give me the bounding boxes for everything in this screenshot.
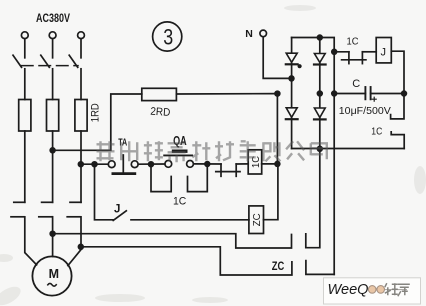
button TA cap bar xyxy=(113,172,135,175)
relay J box xyxy=(376,38,391,63)
terminal L2 xyxy=(49,32,56,39)
watermark 杭州将睿科技有限公司 (pseudo glyphs) xyxy=(97,141,327,162)
coil ZC box xyxy=(249,206,264,234)
wire to 1C coil xyxy=(236,163,248,165)
svg-text:3: 3 xyxy=(163,24,173,49)
wire brake line1 (phase2) xyxy=(53,234,292,248)
wire ZC coil right up to node xyxy=(264,166,278,220)
svg-text:QA: QA xyxy=(173,134,187,148)
wire phase1 to motor xyxy=(25,217,37,265)
switch QS linkage (dashed) xyxy=(22,65,79,67)
contact 1C self-hold left hook xyxy=(151,166,171,192)
fuse 1RD phase2 xyxy=(47,100,59,132)
svg-text:J: J xyxy=(381,46,387,58)
node J branch xyxy=(92,162,97,167)
button TA contact circles xyxy=(108,161,115,168)
svg-text:WeeQ: WeeQ xyxy=(328,281,369,298)
node self-hold right xyxy=(205,162,210,167)
wire brake line2 (phase3) xyxy=(81,247,292,275)
fuse 2RD xyxy=(142,88,177,100)
svg-text:1C: 1C xyxy=(347,36,359,48)
node C branch tap xyxy=(332,91,337,96)
wire 2RD to bridge rail xyxy=(176,93,277,95)
svg-text:10μF/500V: 10μF/500V xyxy=(339,105,391,117)
wire bridge column2 upper xyxy=(319,38,321,149)
capacitor C plates xyxy=(364,87,366,99)
svg-text:2RD: 2RD xyxy=(150,106,171,119)
wire L2 stub xyxy=(52,39,54,58)
svg-text:1C: 1C xyxy=(173,196,186,208)
diode D2 xyxy=(314,54,325,63)
wire J right down xyxy=(391,51,404,93)
switch QS pole 1 blade xyxy=(13,55,22,67)
node on AC rail xyxy=(275,91,280,96)
svg-text:N: N xyxy=(245,28,253,40)
node top rail / column2 xyxy=(317,35,322,40)
button QA contact circles xyxy=(165,161,172,168)
wire DC- bottom rail xyxy=(292,148,405,150)
node bottom rail column2 xyxy=(317,146,322,151)
wire phase3 fuse to contact xyxy=(80,131,82,202)
contact ZC upper right bracket xyxy=(306,149,320,248)
button QA bridge xyxy=(164,154,192,156)
node phase2 brake tap xyxy=(50,231,55,236)
wire TA to QA xyxy=(138,163,165,165)
node column2 AC tap xyxy=(317,91,322,96)
coil 1C box xyxy=(248,150,262,174)
wire pole2 to fuse xyxy=(52,69,54,100)
contact 1C (at J coil) xyxy=(334,51,349,53)
diode D1 xyxy=(286,53,297,62)
svg-text:ZC: ZC xyxy=(272,261,285,273)
wire J fixed side to ZC coil xyxy=(131,219,249,221)
contact 1C (discharge) bracket B xyxy=(391,132,404,149)
wire bridge top rail xyxy=(292,38,335,52)
switch QS pole 3 blade xyxy=(69,55,78,67)
contact ZC (series, closed style) bars xyxy=(220,164,222,176)
wire phase3 to motor xyxy=(68,217,81,266)
capacitor C polarity + xyxy=(372,97,376,101)
terminal N xyxy=(260,30,267,37)
node phase2 tap to 2RD riser xyxy=(50,148,55,153)
label ~ xyxy=(48,283,56,286)
contact ZC lower right bracket xyxy=(306,261,334,275)
wire coil to node xyxy=(262,163,278,165)
svg-text:TA: TA xyxy=(118,137,127,148)
wire phase2 to motor xyxy=(52,217,54,257)
wire bridge column1 xyxy=(291,38,293,149)
contactor 1C main contact phase3 xyxy=(70,201,81,203)
svg-text:J: J xyxy=(114,204,120,216)
logo 维库 pseudo glyphs xyxy=(385,283,410,296)
svg-text:ZC: ZC xyxy=(251,213,263,226)
node C right xyxy=(402,91,407,96)
wire N to bridge xyxy=(263,37,291,79)
fuse 1RD phase1 xyxy=(19,100,31,132)
svg-text:C: C xyxy=(352,78,360,90)
svg-text:1RD: 1RD xyxy=(90,103,102,122)
svg-text:AC380V: AC380V xyxy=(36,11,70,25)
svg-text:1C: 1C xyxy=(371,126,382,138)
logo WeeQoo box xyxy=(324,278,421,304)
contact J blade xyxy=(113,211,126,221)
wire phase2 fuse to contact xyxy=(52,131,54,202)
wire riser to 2RD rail xyxy=(53,94,142,150)
terminal L1 xyxy=(21,32,28,39)
wire L1 stub xyxy=(24,39,26,58)
contactor 1C main contact phase2 xyxy=(42,201,53,203)
wire pole1 to fuse xyxy=(24,69,26,100)
node N junction xyxy=(289,76,294,81)
diode D4 xyxy=(314,108,325,118)
contactor 1C main contact phase1 xyxy=(14,201,25,203)
contact 1C (discharge) bracket A xyxy=(391,94,404,119)
wire C branch left xyxy=(334,93,365,95)
wire C branch right xyxy=(371,93,404,95)
wire pole3 to fuse xyxy=(80,69,82,100)
node coil right xyxy=(275,162,280,167)
terminal L3 xyxy=(78,32,85,39)
wire L3 stub xyxy=(80,39,82,58)
wire node up to rail xyxy=(276,94,278,164)
contact ZC crossbar xyxy=(216,171,240,173)
node control tap on phase3 xyxy=(78,162,83,167)
symbol circled 3 xyxy=(153,22,182,51)
svg-text:M: M xyxy=(49,267,59,281)
fuse 1RD phase3 xyxy=(75,100,87,132)
wire QA to node xyxy=(193,163,221,165)
node J branch tap xyxy=(332,49,337,54)
node self-hold left xyxy=(149,162,154,167)
node phase3 brake tap xyxy=(78,244,83,249)
diode D3 xyxy=(286,108,297,118)
wire J branch down xyxy=(95,164,114,220)
wire control row start xyxy=(81,163,109,165)
button QA cap bar xyxy=(174,149,186,152)
button TA stem xyxy=(122,155,124,172)
contact 1C self-hold right hook xyxy=(188,166,208,192)
motor M circle xyxy=(32,256,71,295)
wire DC+ rail x334 xyxy=(333,52,335,275)
switch QS pole 2 blade xyxy=(41,55,50,67)
wire phase1 fuse to contact xyxy=(24,131,26,202)
